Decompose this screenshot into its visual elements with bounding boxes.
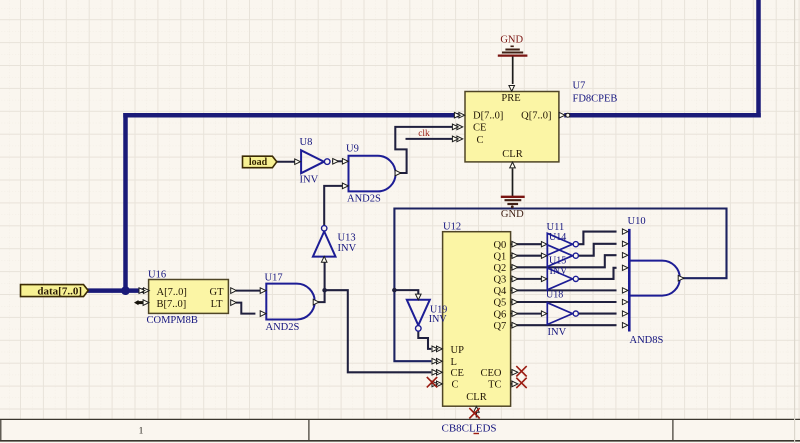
svg-text:Q7: Q7 xyxy=(493,321,506,332)
svg-text:INV: INV xyxy=(550,266,569,277)
pin U17 output xyxy=(313,299,319,305)
pin U7 D[7..0] xyxy=(459,112,465,118)
bus junction data node xyxy=(121,286,130,295)
pin U10 input 4 xyxy=(622,265,628,270)
and-gate U17 xyxy=(266,284,314,320)
wire U9 output to U7 CE xyxy=(395,127,452,173)
svg-text:U8: U8 xyxy=(300,137,313,148)
svg-text:U10: U10 xyxy=(628,216,646,227)
pin U12 UP xyxy=(437,346,443,352)
ground GND below U7 CLR xyxy=(501,169,525,221)
pin U12 Q0 xyxy=(511,243,514,245)
svg-text:Q1: Q1 xyxy=(493,251,506,262)
svg-text:COMPM8B: COMPM8B xyxy=(147,315,198,326)
wire U10 output loop to U12 L xyxy=(394,209,726,362)
wire inv Q6 to U10 input 7 xyxy=(580,313,616,315)
port data[7..0] xyxy=(21,285,89,298)
pin U12 Q2 xyxy=(511,266,514,268)
svg-text:1: 1 xyxy=(139,426,144,436)
svg-text:A[7..0]: A[7..0] xyxy=(157,287,187,298)
pin U12 Q5 xyxy=(511,301,514,303)
svg-text:B[7..0]: B[7..0] xyxy=(157,299,187,310)
comparator U16 COMPM8B xyxy=(147,270,229,326)
no-connect X on U12 TC xyxy=(516,378,526,388)
svg-text:CEO: CEO xyxy=(481,368,502,379)
pin U12 Q6 xyxy=(511,313,514,315)
svg-text:PRE: PRE xyxy=(501,93,520,104)
svg-text:GND: GND xyxy=(500,35,523,46)
bus wire U7 Q[7..0] output xyxy=(567,113,759,118)
svg-text:U9: U9 xyxy=(346,143,359,154)
pin U12 Q7 xyxy=(511,324,514,326)
pin U10 input 8 xyxy=(622,323,628,328)
pin U12 Q4 xyxy=(511,289,514,291)
svg-text:clk: clk xyxy=(418,129,430,139)
wire U16.GT to U17 input 1 xyxy=(237,290,261,292)
svg-text:INV: INV xyxy=(548,327,567,338)
pin U17 input 1 xyxy=(260,288,266,294)
pin U12 Q1 xyxy=(511,255,514,257)
pin U7 PRE xyxy=(509,86,515,92)
wire U17 output up to U13 input xyxy=(319,262,325,302)
wire load tag to U8 input xyxy=(277,161,295,163)
port load xyxy=(243,156,277,168)
wire clk net to U7 C xyxy=(407,138,452,140)
bus wire data[7..0] to U16.A xyxy=(88,288,142,293)
pin U13 input xyxy=(321,256,327,262)
svg-text:INV: INV xyxy=(338,243,357,254)
svg-text:Q2: Q2 xyxy=(493,263,506,274)
pin U7 CLR xyxy=(510,162,516,168)
svg-text:CB8CLEDS: CB8CLEDS xyxy=(442,422,497,434)
bus wire to U7 D[7..0] xyxy=(126,113,457,118)
svg-text:D[7..0]: D[7..0] xyxy=(473,110,503,121)
pin U8 input xyxy=(295,159,301,165)
bus wire Q riser to top edge xyxy=(756,0,761,115)
pin U9 input 1 xyxy=(342,159,348,165)
pin U12 CEO xyxy=(511,371,514,373)
svg-text:Q4: Q4 xyxy=(493,286,507,297)
svg-text:UP: UP xyxy=(451,345,465,356)
wire U19 output to U12 UP xyxy=(418,332,430,349)
svg-text:U17: U17 xyxy=(265,272,283,283)
svg-text:data[7..0]: data[7..0] xyxy=(37,286,82,298)
bus wire vertical data riser xyxy=(123,115,128,290)
svg-text:Q5: Q5 xyxy=(493,298,506,309)
wire U8 output to U9 input 1 xyxy=(333,160,343,162)
junction node U17 output xyxy=(322,288,327,293)
pin U10 output xyxy=(678,275,684,281)
and-gate U10 AND8S xyxy=(628,216,680,346)
pin U16 B arrow xyxy=(143,300,149,306)
wire U13 output to U9 input 2 xyxy=(324,186,342,226)
inverter U11 stage 1 xyxy=(547,233,572,255)
pin U12 CE xyxy=(437,370,443,376)
inverter U13 xyxy=(313,226,357,257)
pin U7 Q[7..0] output xyxy=(559,112,565,118)
pin U10 input 7 xyxy=(622,311,628,316)
pin U10 input 2 xyxy=(622,241,628,246)
pin U10 input 1 xyxy=(622,229,628,234)
pin U12 Q3 xyxy=(511,278,514,280)
svg-text:TC: TC xyxy=(488,380,501,391)
pin U12 L xyxy=(437,358,443,364)
svg-text:GT: GT xyxy=(210,287,225,298)
wire Q3 to U11 inverter xyxy=(518,278,541,280)
svg-text:U13: U13 xyxy=(338,233,356,244)
svg-text:L: L xyxy=(451,357,457,368)
svg-text:AND8S: AND8S xyxy=(630,335,664,346)
inverter U19 xyxy=(407,300,430,331)
wire U16.LT to U17 input 2 xyxy=(237,303,254,314)
wire loop to U19 input xyxy=(394,290,418,294)
pin U8 output xyxy=(333,159,339,165)
wire inv Q1 jog to U10 input 2 xyxy=(580,244,616,256)
pin U10 input 3 xyxy=(622,253,628,258)
counter U12 CB8CLEDS xyxy=(442,221,511,434)
red tick below CB8CLEDS xyxy=(474,433,480,435)
bus entry circle U7 Q xyxy=(566,113,570,117)
wire Q0 to U11 inverter xyxy=(518,243,541,245)
pin U12 C xyxy=(437,381,443,387)
pin U19 input xyxy=(416,294,422,300)
and-gate U9 xyxy=(349,156,396,192)
wire Q4 to U10 xyxy=(518,289,616,291)
no-connect X on U12 C xyxy=(427,377,437,387)
svg-text:Q[7..0]: Q[7..0] xyxy=(521,110,551,121)
svg-text:C: C xyxy=(477,135,484,146)
pin U9 output xyxy=(395,170,401,176)
no-connect X on U12 CEO xyxy=(516,366,526,376)
wire inv Q0 jog to U10 input 1 xyxy=(580,232,616,245)
svg-text:AND2S: AND2S xyxy=(347,193,381,204)
svg-text:GND: GND xyxy=(501,209,524,220)
svg-text:U12: U12 xyxy=(443,221,461,232)
svg-text:U16: U16 xyxy=(148,270,166,281)
svg-text:CE: CE xyxy=(451,368,464,379)
wire Q1 to U11 inverter xyxy=(518,255,541,257)
pin U12 TC xyxy=(511,383,514,385)
svg-text:load: load xyxy=(249,157,268,168)
svg-text:Q6: Q6 xyxy=(493,309,506,320)
inverter U11 stage 3 xyxy=(547,268,572,290)
wire inv Q3 jog to U10 input 4 xyxy=(580,268,616,279)
ground GND above U7 PRE xyxy=(498,35,528,85)
svg-text:CLR: CLR xyxy=(502,149,522,160)
plain zone band xyxy=(0,419,800,443)
svg-text:Q3: Q3 xyxy=(493,275,506,286)
pin U7 CE xyxy=(457,124,463,130)
svg-text:AND2S: AND2S xyxy=(266,322,300,333)
svg-text:Q0: Q0 xyxy=(493,240,506,251)
pin U16 B[7..0] stub xyxy=(137,301,147,304)
svg-text:U7: U7 xyxy=(573,80,586,91)
junction node loop/U19 xyxy=(392,288,397,293)
wire Q7 to U10 xyxy=(518,324,616,326)
pin U16 A[7..0] bus entry xyxy=(141,289,145,293)
inverter U11 stage 2 xyxy=(547,245,572,267)
svg-text:U18: U18 xyxy=(546,290,563,301)
pin U10 input 6 xyxy=(622,299,628,304)
wire Q2 to U10 xyxy=(518,255,616,267)
svg-text:INV: INV xyxy=(429,314,448,325)
flip-flop U7 FD8CPEB xyxy=(465,80,617,162)
wire branch to U12 CE xyxy=(325,290,431,372)
pin U10 input 5 xyxy=(622,288,628,293)
pin U16 GT output xyxy=(231,288,237,294)
pin U17 input 2 xyxy=(260,311,266,317)
pin U7 C xyxy=(457,136,463,142)
svg-text:LT: LT xyxy=(211,299,223,310)
svg-text:U14: U14 xyxy=(549,232,566,243)
pin U12 CLR xyxy=(475,411,477,418)
pin U16 A arrows xyxy=(144,288,150,294)
wire Q6 to U11 inverter xyxy=(518,313,541,315)
inverter U8 xyxy=(300,137,331,185)
svg-text:CE: CE xyxy=(473,123,486,134)
inverter U11 stage 4 xyxy=(547,303,572,325)
svg-text:INV: INV xyxy=(300,174,319,185)
svg-text:CLR: CLR xyxy=(466,392,486,403)
svg-text:C: C xyxy=(452,380,459,391)
no-connect X on U12 CLR xyxy=(469,408,479,418)
wire Q5 to U10 xyxy=(518,301,616,303)
svg-text:FD8CPEB: FD8CPEB xyxy=(573,94,618,105)
svg-text:U15: U15 xyxy=(549,255,566,266)
pin U16 LT output xyxy=(231,300,237,306)
pin U9 input 2 xyxy=(342,183,348,189)
